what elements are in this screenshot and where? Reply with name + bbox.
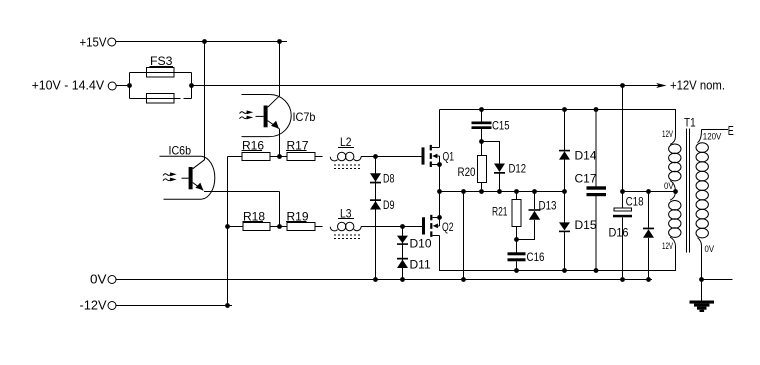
- node D13 top on mid rail: [532, 189, 537, 194]
- node mid rail at Q1/Q2: [437, 189, 442, 194]
- capacitor C17: [587, 110, 607, 271]
- label R17: [286, 138, 309, 152]
- svg-text:C17: C17: [575, 172, 597, 186]
- node x=463.5 at 0V rail: [461, 277, 466, 282]
- node +15V terminal: [80, 36, 116, 50]
- svg-text:C16: C16: [527, 250, 545, 264]
- svg-text:120V: 120V: [703, 131, 722, 141]
- transistor Q2 MOSFET: [422, 215, 440, 237]
- label L2: [338, 135, 354, 149]
- inductor L2: [330, 152, 375, 168]
- transistor Q1 MOSFET: [422, 110, 440, 168]
- node earth junction: [699, 277, 704, 282]
- wire terminal to FS3 left node: [116, 85, 129, 87]
- capacitor C18 (polarised): [613, 192, 632, 280]
- wire FS3 left vertical: [129, 73, 131, 99]
- svg-text:D8: D8: [383, 172, 395, 186]
- svg-text:12V: 12V: [662, 129, 673, 139]
- label FS3: [150, 54, 174, 68]
- svg-text:IC7b: IC7b: [293, 110, 316, 124]
- wire D8/D9 chain vertical to 0V: [375, 157, 377, 280]
- svg-text:0V: 0V: [705, 244, 715, 254]
- transistor IC7b phototransistor: [256, 96, 280, 129]
- light arrows into IC6b: [163, 172, 177, 181]
- diode D12: [494, 164, 505, 192]
- svg-text:D11: D11: [410, 258, 431, 272]
- svg-text:0V: 0V: [90, 272, 107, 286]
- node top rail at D14: [562, 107, 567, 112]
- resistor R17: [280, 153, 323, 161]
- transformer T1 core: [687, 129, 690, 253]
- node top rail at C15: [479, 107, 484, 112]
- light arrows into IC7b: [240, 110, 254, 119]
- node FS3 right junction: [189, 83, 194, 88]
- node C18 bottom on 0V rail: [620, 277, 625, 282]
- wire IC7b emitter down to R16/R17 node: [279, 129, 281, 157]
- svg-text:IC6b: IC6b: [169, 143, 192, 157]
- resistor R19: [280, 223, 323, 231]
- wire secondary top to E terminal: [702, 129, 729, 131]
- fuse FS3 upper element: [147, 68, 175, 78]
- node D9 at 0V rail: [373, 277, 378, 282]
- svg-text:Q2: Q2: [442, 220, 454, 234]
- wire D10/D11 chain vertical to 0V: [402, 227, 404, 280]
- diode D11: [397, 258, 408, 268]
- node R21 top on mid rail: [514, 189, 519, 194]
- wire down to ground: [701, 280, 703, 302]
- label R19: [286, 209, 309, 223]
- diode D10: [397, 236, 408, 245]
- wire left vertical R16/R18 to -12V: [227, 157, 229, 306]
- diode D15: [559, 192, 570, 271]
- node -12V terminal: [80, 299, 117, 313]
- wire mid rail down to 0V: [463, 192, 465, 280]
- node D11 at 0V rail: [400, 277, 405, 282]
- node C15 bottom / R20 / D12 junction: [479, 139, 484, 144]
- transformer T1 secondary winding: [696, 130, 708, 247]
- svg-text:+15V: +15V: [80, 36, 108, 50]
- arrow +12V nom. output: [656, 78, 725, 92]
- wire FS3 bottom branch: [130, 98, 181, 100]
- node Q1 source junction: [437, 162, 442, 167]
- wire IC6b emitter down to R18/R19 node: [279, 192, 281, 227]
- svg-text:E: E: [728, 123, 734, 138]
- wire -12V stub: [116, 305, 232, 307]
- svg-text:C15: C15: [492, 118, 510, 132]
- svg-text:+10V - 14.4V: +10V - 14.4V: [32, 78, 105, 92]
- node C17 bottom on return rail: [594, 268, 599, 273]
- diode D13: [517, 192, 541, 240]
- diode D8: [370, 173, 381, 183]
- wire gate line to Q1: [376, 156, 422, 158]
- node D15 bottom on return rail: [562, 268, 567, 273]
- svg-text:Q1: Q1: [443, 149, 455, 163]
- svg-text:0V: 0V: [664, 181, 674, 191]
- svg-text:D16: D16: [609, 225, 629, 239]
- node D12 bottom on mid rail: [497, 189, 502, 194]
- wire 0V rail: [116, 279, 652, 281]
- node R20 bottom on mid rail: [479, 189, 484, 194]
- wire Q1 source to mid rail: [439, 165, 441, 192]
- wire centre-tap line: [623, 191, 676, 193]
- fuse FS3 lower element: [147, 94, 175, 104]
- node mid rail at x=463.5: [461, 189, 466, 194]
- resistor R20: [478, 142, 487, 192]
- node 0V terminal: [90, 272, 116, 286]
- svg-text:T1: T1: [684, 116, 696, 130]
- wire +15V rail: [116, 41, 287, 43]
- node centre-tap line at C18: [620, 189, 625, 194]
- diode D16: [643, 192, 654, 280]
- svg-text:D9: D9: [383, 198, 395, 212]
- op-to IC7b body: [242, 95, 292, 137]
- node transformer centre tap: [673, 189, 678, 194]
- wire +12V vertical down to centre-tap line: [622, 86, 624, 192]
- node R18/R19/IC6b emitter junction: [277, 224, 282, 229]
- node junction on +15V rail at x=204.5: [202, 39, 207, 44]
- transformer T1 primary upper winding: [669, 137, 681, 192]
- wire +10V rail to +12V nom arrow: [192, 85, 660, 87]
- node top rail at C17: [594, 107, 599, 112]
- label L3: [338, 206, 354, 220]
- node L3/D10/gate junction: [400, 224, 405, 229]
- svg-text:+12V nom.: +12V nom.: [670, 78, 725, 92]
- svg-text:R21: R21: [492, 205, 508, 219]
- wire junction to D12 top: [482, 142, 500, 164]
- diode D14: [559, 110, 570, 192]
- resistor R18: [228, 223, 280, 231]
- node Q2 source junction: [437, 215, 442, 220]
- svg-text:D13: D13: [539, 199, 557, 213]
- node L2/D8/gate junction: [373, 154, 378, 159]
- node +10V - 14.4V terminal: [32, 78, 117, 92]
- opto IC6b body: [160, 156, 215, 199]
- ground symbol: [690, 301, 715, 313]
- wire FS3 top branch: [130, 72, 192, 74]
- svg-text:D12: D12: [509, 161, 527, 175]
- wire Q2 source up to mid rail: [439, 192, 441, 218]
- node -12V junction: [225, 303, 230, 308]
- svg-text:D14: D14: [575, 149, 597, 163]
- diode D9: [370, 199, 381, 209]
- node D16 bottom on 0V rail: [646, 277, 651, 282]
- inductor L3: [330, 222, 422, 238]
- svg-text:12V: 12V: [662, 241, 673, 251]
- svg-text:-12V: -12V: [80, 299, 108, 313]
- wire mid rail (source rail): [440, 191, 565, 193]
- wire earth stub right: [702, 279, 733, 281]
- node FS3 left junction: [127, 83, 132, 88]
- wire IC6b emitter horizontal to x=279.5: [204, 191, 280, 193]
- capacitor C15: [472, 110, 492, 142]
- wire FS3 right vertical: [191, 73, 193, 99]
- transformer T1 primary lower winding: [669, 192, 681, 247]
- node R16/R17/IC7b emitter junction: [277, 154, 282, 159]
- node R21/D13 bottom junction: [514, 237, 519, 242]
- capacitor C16: [508, 240, 526, 271]
- node junction on +15V rail at x=279.5: [277, 39, 282, 44]
- wire secondary bottom to earth node: [701, 246, 703, 280]
- label R18: [243, 209, 266, 223]
- transistor IC6b phototransistor: [182, 160, 205, 191]
- node C16 bottom on return rail: [514, 268, 519, 273]
- wire vertical +15V to IC6b collector: [204, 42, 206, 160]
- svg-text:D15: D15: [575, 218, 597, 232]
- wire top rail Q1 drain to transformer primary top: [440, 110, 676, 137]
- label R16: [242, 138, 265, 152]
- svg-text:R20: R20: [458, 165, 476, 179]
- wire vertical +15V to IC7b collector: [279, 42, 281, 96]
- node D14/D15 junction on mid rail: [562, 189, 567, 194]
- svg-text:D10: D10: [410, 237, 432, 251]
- svg-text:C18: C18: [626, 194, 644, 208]
- resistor R16: [228, 153, 280, 161]
- wire Q2 drain down and right to transformer primary bottom: [440, 235, 676, 270]
- resistor R21: [512, 192, 521, 240]
- node centre-tap line at D16: [646, 189, 651, 194]
- node junction +12V rail at x=622.5: [620, 83, 625, 88]
- node R18 left junction: [225, 224, 230, 229]
